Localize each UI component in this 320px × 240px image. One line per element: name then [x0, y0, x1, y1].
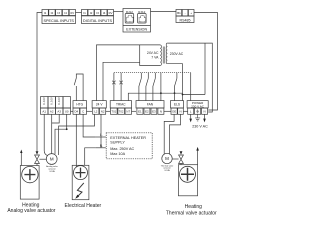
node junction OE net	[174, 92, 176, 94]
svg-text:D4: D4	[74, 109, 78, 113]
svg-text:U0: U0	[65, 109, 69, 113]
wire bus drop to T02 with cross mark	[120, 73, 122, 101]
wire A2 to valve motor	[51, 114, 53, 153]
wire bus drop to FAN N	[160, 73, 162, 101]
switch contact D4-C heater enable	[74, 74, 83, 101]
SPECIAL INPUTS pin labels	[43, 11, 75, 23]
svg-text:I1: I1	[83, 11, 86, 15]
wire link N2-T01	[106, 110, 111, 112]
svg-text:L.: L.	[100, 133, 103, 137]
wire N2 down to external N tick	[100, 114, 102, 148]
svg-text:RJ12: RJ12	[138, 10, 145, 14]
svg-text:I2: I2	[90, 11, 93, 15]
wire link NT-E1	[132, 110, 137, 112]
valve arrow left (from special inputs rail)	[36, 151, 39, 155]
svg-text:Max. 250V AC: Max. 250V AC	[110, 147, 134, 151]
wire L2 to valve motor right	[59, 114, 95, 155]
transformer T1 primary box 230V	[166, 43, 167, 64]
mains L down arrow	[190, 114, 192, 119]
svg-text:7 VA: 7 VA	[151, 55, 159, 59]
svg-text:SUPPLY: SUPPLY	[110, 141, 125, 145]
svg-text:HTG: HTG	[76, 103, 83, 107]
svg-text:M: M	[165, 156, 169, 161]
wire link N-L	[183, 110, 187, 112]
wire primary loop bottom horizontal	[183, 94, 206, 96]
node junction primary/ELS N	[182, 94, 184, 96]
valve V1 stem to actuator box	[36, 164, 38, 166]
cross mark T01	[112, 81, 115, 85]
wire ELS N to thermal motor	[170, 114, 181, 154]
external heater supply box (dashed)	[106, 133, 152, 159]
svg-text:N: N	[203, 109, 205, 113]
svg-text:DIGITAL INPUTS: DIGITAL INPUTS	[83, 19, 112, 23]
svg-text:OE: OE	[172, 109, 176, 113]
svg-text:A3: A3	[57, 109, 61, 113]
svg-text:0..10V: 0..10V	[50, 97, 54, 105]
analog outputs labels	[42, 97, 69, 113]
wire bus corner down to POWER L	[190, 73, 192, 101]
svg-text:E2: E2	[145, 109, 149, 113]
actuator box 1 (heating coil)	[20, 166, 39, 200]
svg-text:TRIAC: TRIAC	[116, 103, 126, 107]
actuator box 2 supply arrow	[197, 150, 199, 164]
svg-text:I3: I3	[96, 11, 99, 15]
HTG labels	[74, 103, 84, 114]
RJ12 connector 1	[125, 14, 134, 24]
terminal block DIGITAL INPUTS	[82, 10, 114, 24]
wire D4 down to heater	[75, 114, 77, 167]
svg-text:SPECIAL INPUTS: SPECIAL INPUTS	[43, 19, 74, 23]
wire digital-extension link	[114, 11, 124, 13]
terminal block SPECIAL INPUTS	[42, 10, 76, 24]
wire 24V distribution bus (dashed)	[114, 72, 191, 74]
external supply L tick	[96, 136, 106, 138]
node junction FAN N	[160, 92, 162, 94]
heater box	[72, 165, 89, 199]
terminal block FAN	[136, 101, 164, 115]
connector box EXTENSION	[123, 9, 151, 33]
svg-text:EXTERNAL HEATER: EXTERNAL HEATER	[110, 136, 146, 140]
svg-text:E1: E1	[138, 109, 142, 113]
terminal block analog outputs A1 A2 A3 U0	[41, 97, 71, 115]
switch contact fan speed 2	[146, 73, 148, 101]
svg-text:I3: I3	[57, 11, 60, 15]
external supply L N labels	[100, 133, 103, 148]
transformer labels	[147, 51, 159, 60]
wire extension-rs485 link	[151, 11, 177, 13]
svg-text:EXTENSION: EXTENSION	[126, 28, 147, 32]
svg-text:+: +	[190, 11, 192, 15]
svg-text:C: C	[82, 109, 84, 113]
POWER labels	[190, 101, 206, 114]
svg-text:T01: T01	[111, 109, 116, 113]
svg-text:I4: I4	[103, 11, 106, 15]
actuator box 1 supply arrow	[20, 152, 22, 165]
valve motor M2 thermal	[162, 153, 172, 163]
valve link M1	[39, 158, 46, 160]
external heater supply text	[110, 136, 146, 156]
svg-text:24 VA: 24 VA	[164, 169, 170, 172]
wire C to external L tick	[83, 114, 96, 137]
svg-text:I2: I2	[51, 11, 54, 15]
svg-text:A2: A2	[50, 109, 54, 113]
svg-text:T02: T02	[119, 109, 124, 113]
mains earth symbol	[195, 114, 200, 121]
heater zigzag arrow	[77, 183, 84, 198]
actuator box 2 (heating coil)	[178, 165, 197, 196]
svg-text:RJ12: RJ12	[126, 10, 133, 14]
svg-text:E3: E3	[152, 109, 156, 113]
switch contact heater OE	[175, 73, 177, 101]
svg-text:230 V AC: 230 V AC	[191, 104, 205, 108]
svg-text:230V AC: 230V AC	[170, 52, 184, 56]
switch contact fan speed 3	[153, 73, 155, 101]
wire link U0-D4	[71, 110, 74, 112]
mains N down arrow	[204, 114, 206, 119]
svg-text:RS485: RS485	[180, 18, 191, 22]
transformer T1 core bars	[163, 47, 165, 64]
RS485 pin labels	[177, 11, 192, 22]
valve link M2	[172, 158, 178, 160]
FAN labels	[138, 103, 162, 114]
EXTENSION labels	[126, 10, 148, 32]
wire primary box right edge	[204, 43, 206, 94]
wire rs485 to right rail	[194, 13, 218, 111]
svg-text:A1: A1	[42, 109, 46, 113]
terminal block 24V L2 N2	[92, 101, 106, 115]
terminal block POWER 230V	[187, 101, 208, 115]
wire special inputs left rail down to valve arrow	[37, 13, 42, 152]
svg-text:24 VA: 24 VA	[49, 170, 55, 173]
svg-text:0..10V: 0..10V	[57, 97, 61, 105]
terminal block RS485	[176, 10, 194, 23]
wire A3 tee into A2	[52, 114, 60, 123]
valve arrow right	[180, 151, 183, 155]
valve motor M1	[46, 154, 57, 165]
valve V2 hourglass	[179, 155, 184, 164]
wire secondary N2 to box left edge	[103, 62, 140, 100]
svg-text:-: -	[185, 11, 186, 15]
heater circle cross	[74, 166, 88, 180]
svg-text:24 V: 24 V	[96, 103, 103, 107]
svg-text:N.: N.	[100, 144, 103, 148]
wire link N-OE	[164, 110, 171, 112]
svg-text:Max 10A: Max 10A	[110, 152, 125, 156]
svg-text:I1: I1	[44, 11, 47, 15]
valve V1 hourglass	[35, 155, 40, 164]
wire secondary top to L2	[97, 45, 140, 101]
svg-text:NT: NT	[126, 109, 130, 113]
external supply N tick	[96, 147, 106, 149]
terminal block TRIAC	[110, 101, 131, 115]
svg-text:Electrical Heater: Electrical Heater	[65, 203, 102, 209]
svg-text:N2: N2	[101, 109, 105, 113]
ELS labels	[172, 103, 182, 114]
svg-text:I4: I4	[64, 11, 67, 15]
RJ12 connector 2	[138, 14, 147, 24]
TRIAC labels	[111, 103, 130, 114]
wire link C-L2	[87, 110, 93, 112]
wire heater N up to external N tick	[85, 148, 96, 166]
svg-text:ELS: ELS	[174, 103, 180, 107]
heating coil circle 1	[22, 166, 38, 182]
cross mark T02	[119, 81, 122, 85]
svg-text:Analog valve actuator: Analog valve actuator	[7, 208, 55, 214]
svg-text:24V AC: 24V AC	[147, 51, 159, 55]
svg-text:230 V AC: 230 V AC	[192, 125, 208, 129]
wire special-digital link	[76, 12, 82, 14]
svg-text:N: N	[179, 109, 181, 113]
wire U0 junction to valve motor	[55, 114, 67, 154]
wire A1 to valve motor	[44, 114, 47, 155]
M2 caption	[161, 165, 174, 172]
svg-text:B1: B1	[177, 11, 181, 15]
svg-text:Heating: Heating	[185, 204, 202, 210]
DIGITAL INPUTS pin labels	[83, 11, 113, 23]
terminal block ELS	[171, 101, 184, 115]
svg-text:N: N	[160, 109, 162, 113]
svg-text:Thermal valve actuator: Thermal valve actuator	[166, 211, 217, 217]
M1 caption	[46, 165, 58, 173]
svg-text:FAN: FAN	[147, 103, 154, 107]
svg-text:L2: L2	[94, 109, 98, 113]
svg-text:0..10V: 0..10V	[42, 97, 46, 105]
valve V2 stem	[180, 164, 182, 165]
terminal block HTG D4 C	[73, 101, 87, 115]
bottom captions	[7, 202, 217, 216]
node junction U0	[66, 128, 68, 130]
wire primary top to right rail to POWER N	[167, 43, 212, 112]
switch contact fan speed 1	[139, 73, 141, 101]
heating coil circle 2	[180, 166, 196, 182]
POWER earth pin symbol	[196, 110, 199, 113]
24V labels	[94, 103, 105, 114]
wire bus drop to T01 with cross mark	[113, 73, 115, 101]
wire OE to thermal motor	[164, 114, 174, 154]
transformer T1 secondary box 24V	[140, 45, 162, 66]
svg-text:M: M	[50, 157, 54, 162]
wire NT to ELS N horizontal	[128, 93, 182, 100]
wire primary bottom to ELS N	[167, 64, 182, 101]
